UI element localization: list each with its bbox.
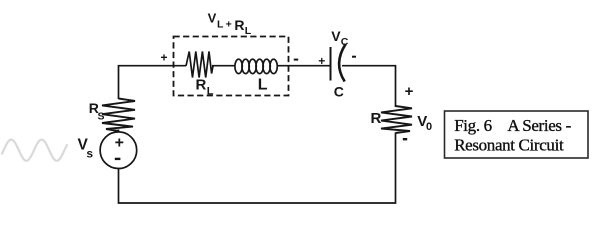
svg-text:s: s — [86, 147, 93, 161]
svg-text:L: L — [207, 86, 214, 98]
svg-text:R: R — [234, 17, 244, 33]
svg-text:L: L — [258, 77, 268, 94]
svg-text:R: R — [371, 110, 382, 127]
svg-text:L: L — [217, 19, 224, 31]
svg-text:R: R — [196, 77, 207, 94]
svg-text:V: V — [331, 28, 341, 44]
svg-text:C: C — [341, 36, 349, 48]
svg-text:L: L — [245, 25, 252, 37]
svg-text:+: + — [161, 51, 168, 65]
svg-text:+: + — [318, 54, 325, 68]
svg-text:+: + — [226, 19, 232, 31]
svg-text:C: C — [334, 84, 344, 100]
svg-text:Fig. 6 A Series -: Fig. 6 A Series - — [454, 116, 571, 135]
svg-text:+: + — [115, 134, 124, 151]
svg-text:Resonant Circuit: Resonant Circuit — [454, 136, 564, 155]
svg-text:V: V — [208, 10, 217, 25]
svg-text:S: S — [98, 110, 105, 122]
svg-text:0: 0 — [426, 121, 432, 133]
svg-text:+: + — [405, 83, 414, 100]
